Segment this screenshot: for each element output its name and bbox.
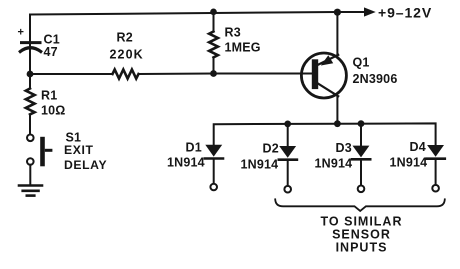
svg-text:TO SIMILAR: TO SIMILAR <box>321 215 403 229</box>
wire R2 to R3 node <box>139 73 214 76</box>
svg-text:220K: 220K <box>110 48 144 62</box>
label R3 1MEG <box>225 26 261 55</box>
label TO SIMILAR SENSOR INPUTS <box>321 215 403 255</box>
wire base node to Q1 base <box>214 73 313 75</box>
svg-text:1N914: 1N914 <box>167 156 205 170</box>
node bus junction D3 <box>358 120 365 127</box>
node power junction R3 top <box>210 9 217 16</box>
label R2 220K <box>110 31 144 62</box>
node base junction R3 bottom <box>210 70 217 77</box>
diode D1 <box>205 145 223 184</box>
transistor Q1 collector <box>318 84 338 97</box>
wire diode bus <box>214 123 436 145</box>
svg-text:1MEG: 1MEG <box>225 41 261 55</box>
label C1 47 <box>44 32 60 59</box>
label Q1 2N3906 <box>353 56 398 87</box>
label D2 1N914 <box>241 142 279 172</box>
svg-text:Q1: Q1 <box>353 56 370 70</box>
wire Q1 emitter to rail <box>336 12 338 55</box>
wire C1 bottom to node A <box>29 45 31 75</box>
svg-text:47: 47 <box>44 45 58 59</box>
wire Q1 collector to bus <box>336 96 338 124</box>
svg-text:R2: R2 <box>117 31 133 45</box>
brace to similar sensor inputs <box>275 199 445 211</box>
wire D2 stub <box>287 124 289 146</box>
label S1 EXIT DELAY <box>64 131 107 172</box>
transistor Q1 emitter with arrow <box>318 55 338 66</box>
terminal D1 <box>210 184 217 191</box>
svg-text:DELAY: DELAY <box>64 158 107 172</box>
svg-text:R1: R1 <box>41 89 57 103</box>
svg-text:EXIT: EXIT <box>64 143 94 157</box>
wire R3 bottom stub <box>213 57 215 73</box>
node bus junction collector <box>334 120 341 127</box>
wire R3 top stub <box>213 12 215 32</box>
node bus junction D2 <box>284 121 291 128</box>
transistor Q1 circle <box>301 53 346 98</box>
terminal D2 <box>284 186 291 193</box>
svg-text:1N914: 1N914 <box>241 158 279 172</box>
wire node A to R2 <box>30 73 113 75</box>
diode D3 <box>352 146 370 186</box>
svg-text:R3: R3 <box>225 26 241 40</box>
svg-text:D3: D3 <box>336 141 352 155</box>
svg-text:D2: D2 <box>263 142 279 156</box>
wire D3 stub <box>360 124 362 146</box>
wire left vertical rail to C1 <box>29 15 31 42</box>
transistor Q1 base bar <box>312 59 318 89</box>
svg-text:SENSOR: SENSOR <box>332 228 391 242</box>
switch S1 terminal bottom <box>27 158 34 165</box>
wire node A to R1 <box>29 74 31 89</box>
resistor R1 <box>26 89 35 115</box>
capacitor C1 <box>18 27 41 52</box>
terminal D4 <box>432 185 439 192</box>
label D1 1N914 <box>167 141 205 170</box>
svg-text:1N914: 1N914 <box>390 156 428 170</box>
node A junction C1/R1/R2 <box>27 71 34 78</box>
label D3 1N914 <box>315 141 353 171</box>
wire S1 to ground <box>29 165 31 185</box>
diode D2 <box>279 146 297 186</box>
svg-text:D1: D1 <box>186 141 202 155</box>
svg-text:D4: D4 <box>410 140 426 154</box>
diode D4 <box>427 145 445 185</box>
label D4 1N914 <box>390 140 428 170</box>
svg-text:1N914: 1N914 <box>315 157 353 171</box>
ground <box>19 186 42 196</box>
switch S1 pushbutton bar <box>40 137 52 167</box>
power arrow +9-12V <box>364 5 432 21</box>
terminal D3 <box>358 186 365 193</box>
node power junction Q1 emitter <box>334 9 341 16</box>
resistor R3 <box>209 32 218 58</box>
wire top power rail <box>30 12 365 15</box>
label R1 10ohm <box>41 89 66 118</box>
resistor R2 <box>113 70 139 79</box>
switch S1 terminal top <box>27 135 34 142</box>
svg-text:10Ω: 10Ω <box>41 104 66 118</box>
svg-text:+: + <box>18 27 24 39</box>
svg-text:+9–12V: +9–12V <box>378 5 432 21</box>
wire R1 to S1 <box>29 114 31 134</box>
svg-text:2N3906: 2N3906 <box>353 72 398 86</box>
svg-text:INPUTS: INPUTS <box>336 241 388 255</box>
